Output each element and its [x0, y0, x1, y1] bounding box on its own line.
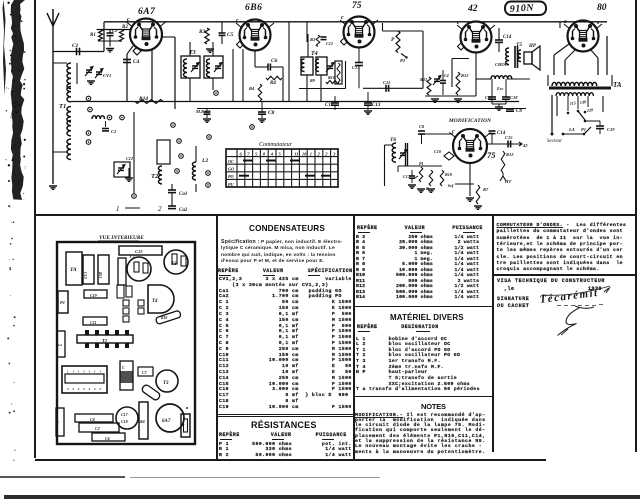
svg-text:C12: C12: [326, 41, 333, 46]
svg-text:c: c: [564, 19, 567, 25]
svg-text:PU: PU: [228, 182, 235, 187]
svg-text:75: 75: [352, 1, 362, 11]
svg-text:C11: C11: [485, 95, 492, 100]
svg-text:M.F.C7: M.F.C7: [195, 109, 211, 114]
svg-text:4: 4: [270, 152, 274, 157]
svg-text:1: 1: [78, 370, 80, 374]
svg-text:L2: L2: [201, 158, 208, 164]
svg-text:115: 115: [569, 100, 576, 106]
svg-text:C8: C8: [268, 110, 275, 116]
svg-text:C7: C7: [142, 370, 148, 375]
svg-text:OC: OC: [228, 159, 234, 164]
svg-text:R4: R4: [249, 86, 255, 91]
svg-text:c: c: [236, 18, 239, 24]
svg-text:C11: C11: [90, 320, 96, 325]
svg-text:T2: T2: [102, 338, 108, 343]
svg-text:C4: C4: [90, 417, 95, 422]
svg-text:910N: 910N: [509, 2, 534, 15]
svg-text:130: 130: [579, 99, 587, 105]
svg-text:6A7: 6A7: [138, 7, 156, 17]
svg-text:C: C: [57, 420, 60, 424]
svg-text:6A7: 6A7: [162, 419, 171, 424]
svg-text:1: 1: [94, 370, 96, 374]
svg-text:220: 220: [585, 107, 594, 113]
svg-text:1: 1: [89, 370, 91, 374]
svg-text:42: 42: [467, 4, 478, 14]
svg-text:2: 2: [324, 152, 328, 157]
svg-text:1: 1: [99, 370, 101, 374]
svg-text:R12: R12: [506, 152, 514, 157]
svg-text:6: 6: [240, 152, 243, 157]
svg-text:75: 75: [487, 150, 496, 160]
svg-text:C19: C19: [607, 127, 615, 132]
svg-text:1: 1: [67, 370, 69, 374]
svg-text:C13: C13: [372, 103, 381, 108]
svg-text:TA: TA: [70, 267, 77, 273]
svg-text:P1: P1: [60, 300, 65, 305]
svg-text:GO: GO: [228, 167, 234, 172]
svg-text:V: V: [182, 423, 185, 427]
svg-text:C2: C2: [112, 28, 118, 33]
svg-text:1: 1: [83, 370, 85, 374]
svg-text:6xf: 6xf: [448, 183, 454, 188]
svg-text:Ca2: Ca2: [179, 208, 188, 213]
svg-text:2: 2: [82, 387, 85, 391]
svg-text:C19: C19: [90, 293, 97, 298]
svg-text:C?: C?: [130, 254, 135, 259]
svg-text:CHOC: CHOC: [495, 62, 509, 67]
svg-text:3: 3: [332, 152, 336, 157]
svg-text:C13: C13: [83, 272, 88, 279]
svg-text:C2: C2: [95, 426, 100, 431]
svg-text:42: 42: [522, 143, 528, 148]
svg-text:7: 7: [247, 152, 250, 157]
svg-text:Técarémit: Técarémit: [539, 287, 599, 306]
svg-text:C2: C2: [111, 129, 117, 134]
svg-text:R10: R10: [161, 316, 167, 320]
svg-text:Ca: Ca: [58, 343, 62, 347]
svg-text:R11: R11: [420, 77, 427, 82]
svg-text:1: 1: [116, 205, 120, 213]
svg-text:c: c: [457, 20, 460, 26]
svg-text:P: P: [391, 37, 395, 43]
svg-text:R11: R11: [98, 272, 103, 278]
svg-text:R2: R2: [122, 25, 128, 30]
svg-text:8: 8: [263, 152, 266, 157]
svg-text:C10: C10: [434, 149, 442, 154]
svg-text:R14: R14: [138, 96, 148, 102]
svg-text:C18: C18: [121, 419, 128, 424]
svg-text:C17: C17: [403, 174, 411, 179]
svg-text:T2: T2: [151, 173, 159, 180]
svg-text:R9: R9: [310, 78, 316, 83]
svg-text:1: 1: [72, 370, 74, 374]
svg-text:C15: C15: [505, 135, 513, 140]
svg-text:R4: R4: [140, 419, 145, 424]
svg-text:R1: R1: [90, 33, 96, 38]
svg-text:R3: R3: [198, 29, 206, 35]
svg-text:R3: R3: [310, 37, 316, 42]
svg-text:T1: T1: [59, 103, 66, 110]
svg-text:c: c: [127, 17, 130, 23]
svg-text:Commutateur: Commutateur: [259, 142, 293, 148]
svg-text:C5: C5: [227, 32, 234, 38]
svg-text:C6: C6: [271, 58, 278, 64]
svg-text:Ca1: Ca1: [179, 192, 187, 197]
svg-text:C11: C11: [325, 103, 333, 108]
svg-text:c: c: [341, 15, 344, 21]
svg-text:PO: PO: [228, 174, 234, 179]
svg-text:T6: T6: [390, 137, 396, 143]
svg-text:T3: T3: [163, 381, 169, 386]
svg-text:HT: HT: [504, 179, 512, 184]
svg-text:TA: TA: [613, 81, 622, 89]
svg-text:LA: LA: [568, 127, 575, 132]
svg-text:T4: T4: [152, 299, 158, 304]
svg-text:c: c: [452, 129, 455, 135]
svg-text:2: 2: [71, 387, 74, 391]
svg-text:C8: C8: [516, 109, 522, 114]
svg-text:C: C: [122, 365, 125, 370]
svg-text:Exc: Exc: [496, 86, 504, 91]
svg-text:2: 2: [93, 387, 96, 391]
svg-text:2: 2: [98, 387, 101, 391]
svg-text:5: 5: [279, 152, 282, 157]
svg-text:R7: R7: [483, 187, 489, 192]
svg-text:Secteur: Secteur: [547, 139, 562, 144]
svg-text:5: 5: [255, 152, 258, 157]
svg-text:P1: P1: [419, 161, 424, 166]
svg-text:C8: C8: [419, 124, 425, 129]
svg-text:1: 1: [310, 152, 312, 157]
svg-text:C4: C4: [133, 59, 140, 65]
svg-text:2: 2: [88, 387, 91, 391]
svg-text:C14: C14: [503, 35, 512, 40]
svg-text:C17: C17: [121, 412, 129, 417]
svg-text:10: 10: [302, 152, 307, 157]
svg-text:2: 2: [317, 152, 321, 157]
svg-text:R10: R10: [328, 75, 336, 80]
svg-text:C1: C1: [72, 43, 79, 49]
svg-text:VUE INTERIEURE: VUE INTERIEURE: [99, 235, 144, 241]
svg-text:11: 11: [294, 152, 298, 157]
svg-text:R10: R10: [445, 172, 453, 177]
svg-text:6B6: 6B6: [245, 3, 262, 13]
svg-text:80: 80: [597, 3, 607, 13]
svg-text:HP: HP: [528, 44, 537, 49]
svg-text:CV1: CV1: [103, 73, 111, 78]
svg-text:2: 2: [77, 387, 80, 391]
svg-text:T4: T4: [311, 51, 318, 57]
svg-text:R12: R12: [461, 73, 469, 78]
svg-text:MODIFICATION: MODIFICATION: [448, 118, 491, 124]
svg-text:2: 2: [158, 205, 162, 213]
svg-text:C11: C11: [383, 80, 390, 85]
svg-text:C18: C18: [510, 95, 518, 100]
svg-text:P2: P2: [400, 58, 406, 63]
svg-text:P1: P1: [581, 127, 586, 132]
svg-text:C12: C12: [126, 156, 133, 161]
svg-text:C6: C6: [105, 436, 110, 441]
svg-text:2: 2: [66, 387, 69, 391]
svg-text:C12: C12: [135, 249, 143, 254]
svg-text:R4: R4: [270, 81, 276, 86]
svg-text:C4: C4: [444, 73, 449, 78]
